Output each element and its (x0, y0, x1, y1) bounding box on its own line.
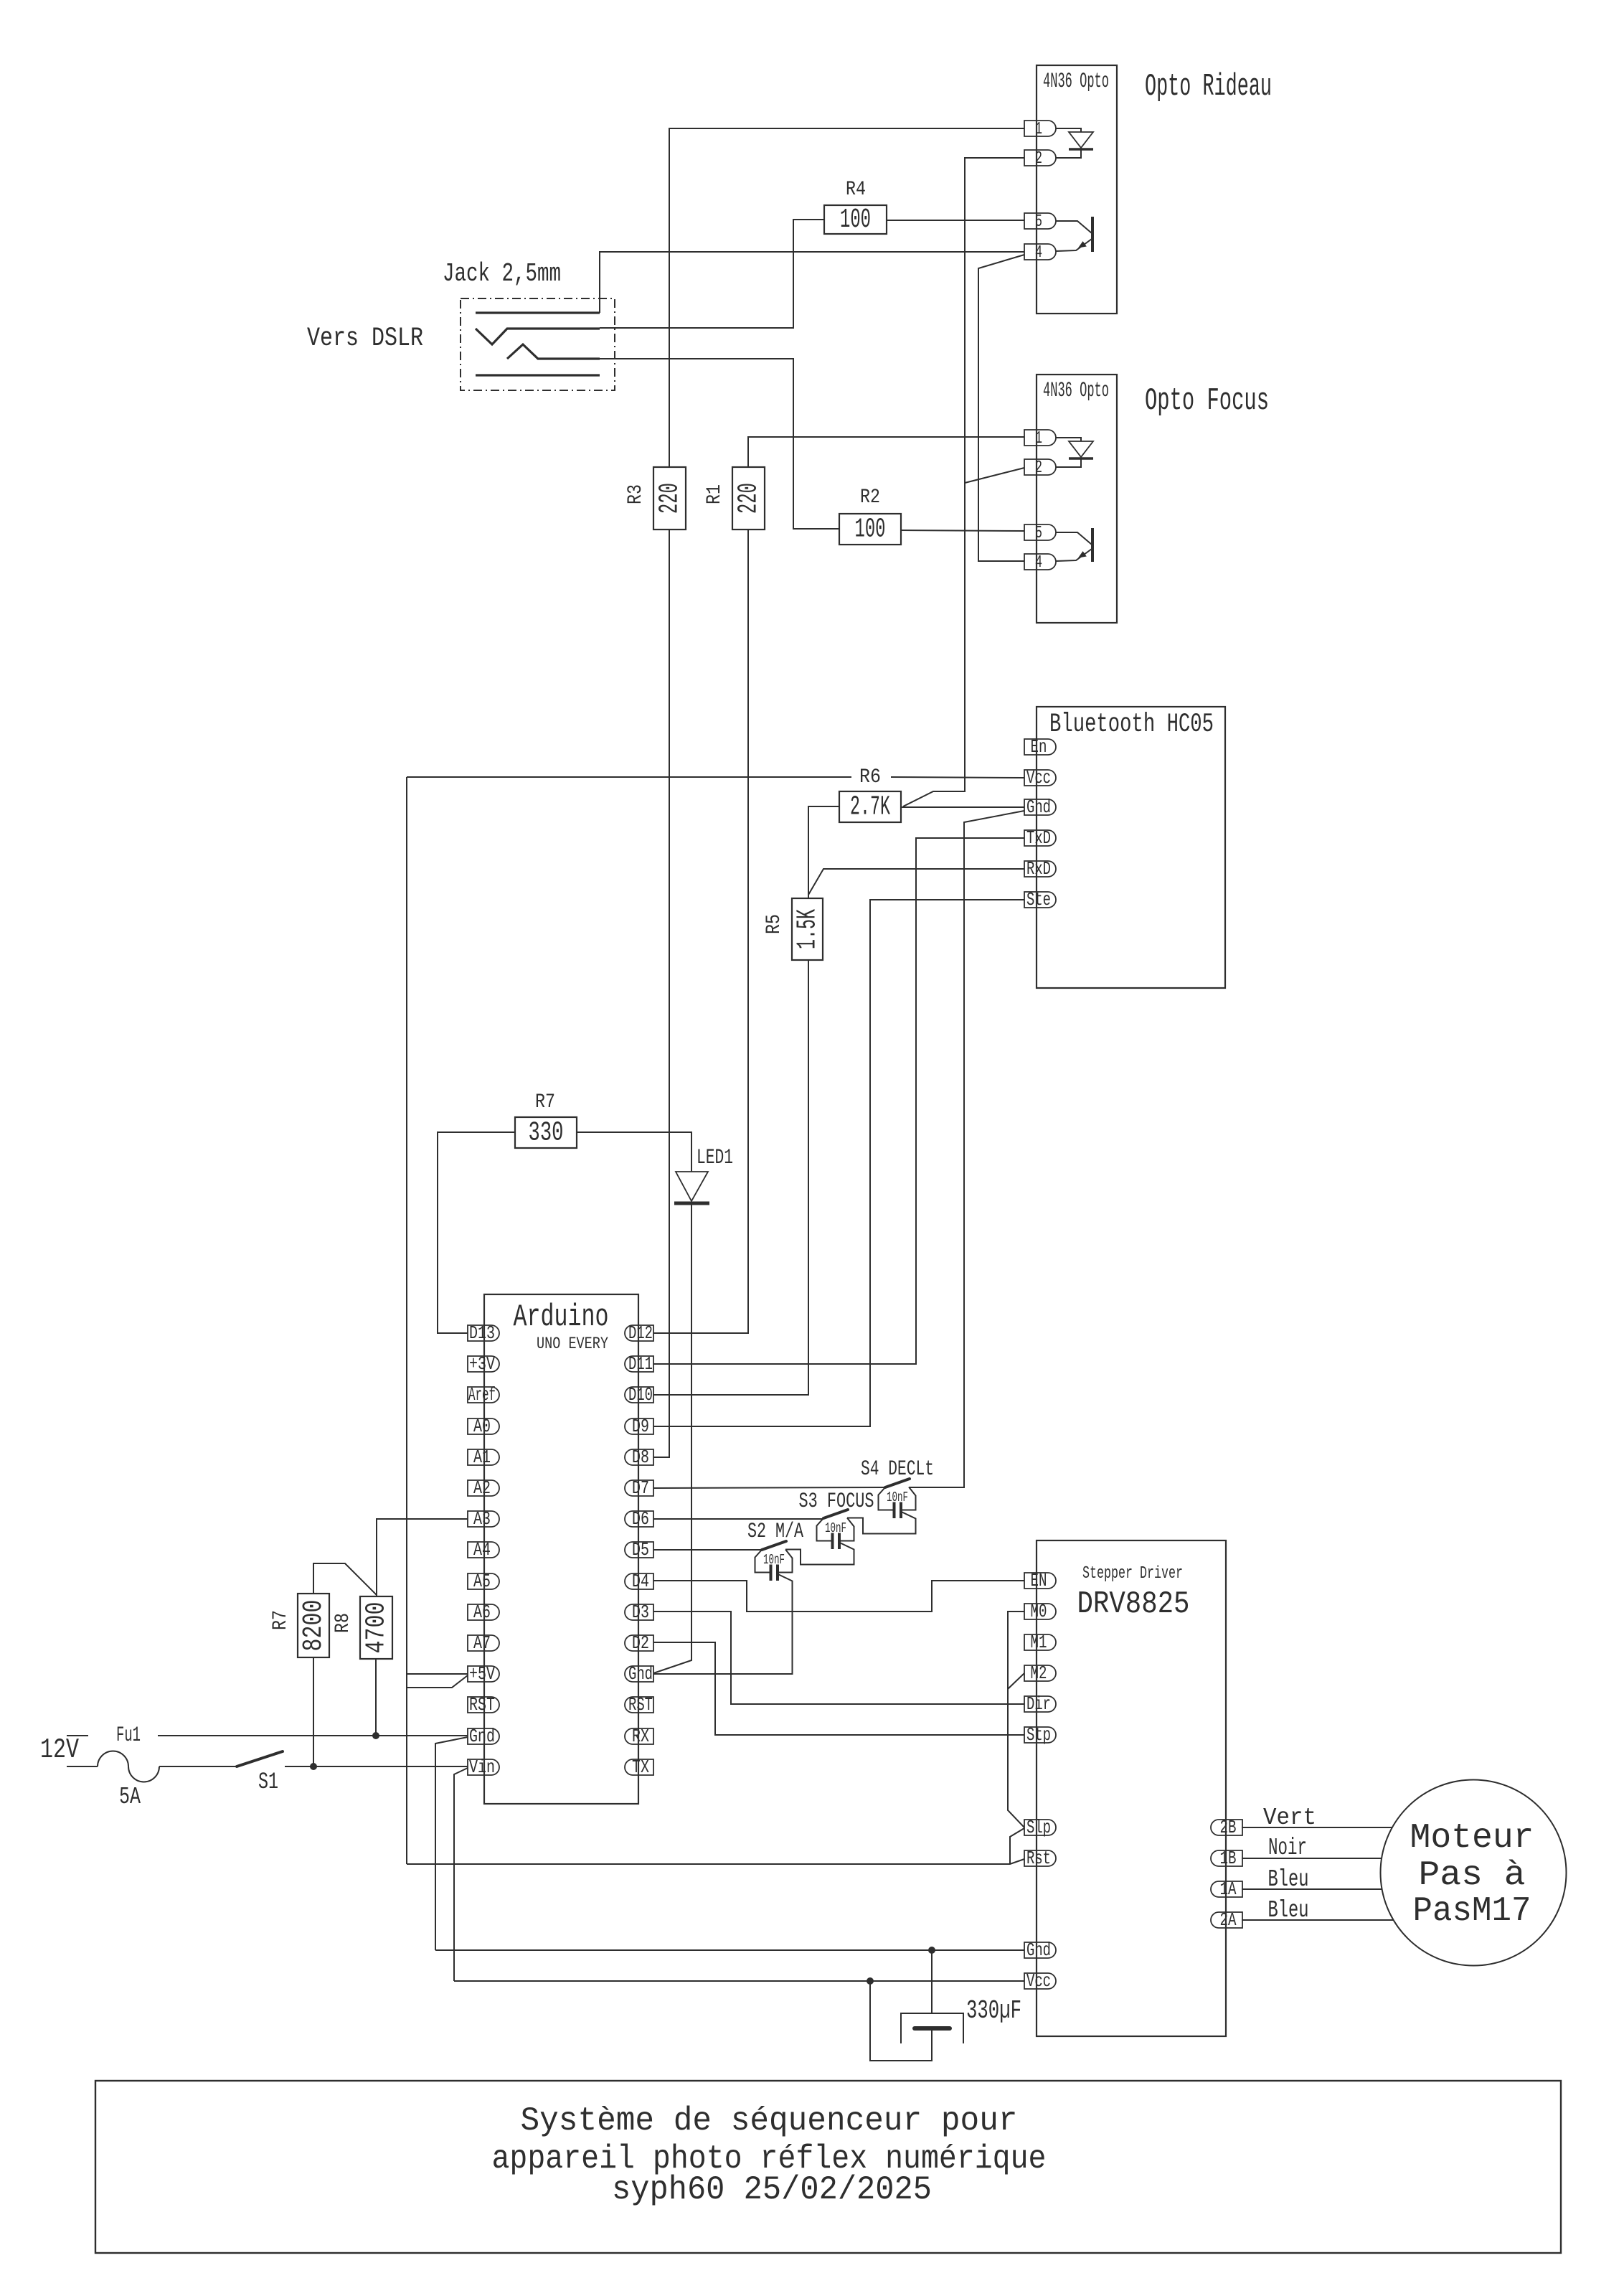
gnd wire with Fu1 label to arduino Gnd (67, 1735, 88, 1736)
svg-text:4N36 Opto: 4N36 Opto (1043, 70, 1109, 94)
wire S1 to arduino Vin (285, 1766, 468, 1767)
arduino pin D6 (right) (625, 1511, 653, 1527)
svg-text:220: 220 (734, 483, 765, 514)
svg-text:1B: 1B (1220, 1848, 1237, 1869)
svg-text:En: En (1031, 736, 1047, 758)
svg-text:D5: D5 (632, 1539, 649, 1561)
opto LED anode wire (1056, 128, 1081, 132)
wire R3 to arduino D8 (653, 530, 669, 1457)
svg-text:TxD: TxD (1026, 827, 1051, 849)
opto focus pin 1 (1024, 430, 1056, 446)
wire gnd to DRV Gnd (435, 1949, 1024, 1951)
wire DRV 2B to motor, Vert (1242, 1827, 1392, 1828)
module U4 Bluetooth HC05 box (1037, 707, 1225, 988)
capacitor 10nF of S4 (893, 1502, 896, 1519)
wire +5V vertical rail (406, 777, 407, 1864)
junction cap330 top (928, 1947, 935, 1954)
drv8825 pin Dir (1024, 1696, 1056, 1712)
svg-text:+3V: +3V (469, 1353, 495, 1375)
svg-text:1: 1 (1035, 429, 1042, 448)
svg-text:Pas à: Pas à (1419, 1856, 1526, 1895)
wire arduino D5 to S2 (653, 1549, 762, 1551)
resistor R7b 8200 (298, 1594, 329, 1657)
bluetooth pin TxD (1024, 830, 1056, 846)
svg-text:D3: D3 (632, 1601, 649, 1623)
svg-text:Dir: Dir (1026, 1693, 1051, 1715)
svg-text:Gnd: Gnd (1026, 1939, 1051, 1961)
wire R7 to LED1 (577, 1132, 691, 1172)
wire DRV M0-M2-Slp tie (1008, 1612, 1024, 1827)
svg-text:EN: EN (1031, 1570, 1047, 1591)
arduino pin +3V (left) (468, 1356, 499, 1372)
wire vin to DRV Vcc (454, 1980, 1024, 1982)
title block frame (95, 2081, 1561, 2253)
junction R7b-Vin (310, 1763, 317, 1770)
svg-text:A6: A6 (473, 1601, 491, 1623)
wire DRV 2A to motor, Bleu (1242, 1919, 1394, 1921)
resistor R6 2.7K (839, 791, 901, 822)
svg-text:4N36 Opto: 4N36 Opto (1043, 379, 1109, 403)
svg-text:2.7K: 2.7K (850, 792, 890, 823)
svg-text:4: 4 (1035, 243, 1042, 263)
switch S2 lever (762, 1541, 786, 1550)
arduino pin A2 (left) (468, 1480, 499, 1496)
svg-text:M0: M0 (1031, 1601, 1047, 1622)
svg-text:4: 4 (1035, 553, 1042, 573)
svg-text:Gnd: Gnd (469, 1726, 495, 1747)
arduino pin A0 (left) (468, 1418, 499, 1434)
svg-text:100: 100 (855, 514, 886, 545)
wire R3 to opto rideau pin 1 (669, 128, 1024, 467)
wire R8 bottom to gnd wire (375, 1659, 377, 1736)
svg-text:D7: D7 (632, 1477, 649, 1499)
svg-text:D9: D9 (632, 1416, 649, 1437)
svg-text:4700: 4700 (362, 1602, 392, 1654)
jack bottom contact (476, 374, 600, 376)
arduino pin Gnd (right) (625, 1666, 653, 1682)
svg-text:12V: 12V (40, 1734, 79, 1766)
arduino pin D9 (right) (625, 1418, 653, 1434)
opto focus pin 4 (1024, 554, 1056, 570)
arduino pin +5V (left) (468, 1666, 499, 1682)
svg-text:100: 100 (840, 204, 871, 235)
svg-text:Jack 2,5mm: Jack 2,5mm (443, 259, 561, 288)
svg-text:Vin: Vin (469, 1756, 495, 1778)
arduino pin RST (left) (468, 1697, 499, 1713)
svg-text:D11: D11 (628, 1353, 653, 1375)
svg-text:330µF: 330µF (966, 1996, 1021, 2026)
opto rideau pin 5 (1024, 213, 1056, 229)
svg-text:5A: 5A (119, 1784, 141, 1810)
svg-text:Noir: Noir (1268, 1835, 1307, 1861)
wire R2 to opto focus pin 5 (901, 530, 1024, 531)
wire jack sleeve to opto pins 4 (600, 252, 1024, 313)
svg-text:A4: A4 (473, 1539, 491, 1561)
svg-text:A0: A0 (473, 1416, 491, 1437)
capacitor 10nF of S3 (831, 1533, 834, 1550)
svg-text:Système de séquenceur pour: Système de séquenceur pour (521, 2102, 1018, 2140)
wire arduino D6 to S3 (653, 1518, 823, 1520)
svg-text:Stepper Driver: Stepper Driver (1082, 1564, 1183, 1584)
svg-text:Bluetooth HC05: Bluetooth HC05 (1049, 710, 1214, 740)
svg-text:R3: R3 (625, 484, 647, 504)
svg-text:Slp: Slp (1026, 1817, 1051, 1838)
wire arduino A3 to R8 (377, 1519, 468, 1596)
svg-text:220: 220 (655, 483, 686, 514)
svg-text:UNO EVERY: UNO EVERY (537, 1335, 608, 1353)
svg-text:10nF: 10nF (763, 1552, 785, 1568)
svg-text:A3: A3 (473, 1508, 491, 1530)
arduino pin D4 (right) (625, 1573, 653, 1589)
drv8825 pin Rst (1024, 1850, 1056, 1866)
junction cap330 bottom (867, 1977, 874, 1985)
drv8825 pin Slp (1024, 1820, 1056, 1835)
wire opto rideau pin 2 to cathode net (903, 158, 1024, 806)
wire bluetooth RxD to R5 (808, 869, 1024, 895)
wire LED1 cathode to arduino Gnd (653, 1205, 691, 1673)
svg-text:2A: 2A (1220, 1909, 1237, 1931)
resistor R2 100 (839, 514, 901, 545)
bluetooth pin RxD (1024, 861, 1056, 877)
svg-text:R7: R7 (270, 1610, 292, 1630)
bluetooth pin Gnd (1024, 799, 1056, 815)
wire bluetooth Gnd down to gnd net (964, 811, 1024, 1487)
svg-text:R2: R2 (860, 486, 880, 509)
opto LED diode (1069, 441, 1093, 457)
resistor R8 4700 (360, 1596, 392, 1659)
opto-coupler U2 4N36 Opto Rideau box (1037, 65, 1117, 314)
switch S2 cap outline (755, 1550, 770, 1573)
resistor R5 1.5K (792, 898, 823, 960)
arduino pin D8 (right) (625, 1449, 653, 1465)
wire arduino D4 to DRV EN (653, 1581, 1024, 1612)
svg-text:Ste: Ste (1026, 889, 1051, 911)
svg-text:Aref: Aref (468, 1384, 496, 1406)
arduino pin A4 (left) (468, 1542, 499, 1558)
wire +5V to bluetooth Vcc (407, 776, 851, 778)
svg-text:2: 2 (1035, 458, 1042, 478)
arduino pin A7 (left) (468, 1635, 499, 1651)
arduino pin D3 (right) (625, 1604, 653, 1620)
wire +5V rail to +5V pin (407, 1673, 468, 1675)
wire R4 to opto rideau pin 5 (887, 220, 1024, 221)
svg-text:10nF: 10nF (825, 1520, 846, 1536)
svg-text:Vert: Vert (1263, 1805, 1316, 1831)
svg-text:A7: A7 (473, 1632, 491, 1654)
svg-text:330: 330 (529, 1118, 564, 1149)
drv8825 pin EN (1024, 1573, 1056, 1589)
wire DRV 1B to motor, Noir (1242, 1858, 1382, 1859)
svg-text:1.5K: 1.5K (793, 909, 823, 949)
arduino pin D11 (right) (625, 1356, 653, 1372)
svg-text:8200: 8200 (298, 1600, 329, 1652)
arduino pin D12 (right) (625, 1325, 653, 1341)
svg-text:+5V: +5V (469, 1663, 495, 1685)
svg-text:D6: D6 (632, 1508, 649, 1530)
wire R1 to opto focus pin 1 (748, 437, 1024, 467)
opto LED cathode wire (1056, 149, 1081, 158)
svg-text:S3 FOCUS: S3 FOCUS (799, 1490, 874, 1514)
svg-text:D2: D2 (632, 1632, 649, 1654)
svg-text:D10: D10 (628, 1384, 653, 1406)
svg-text:RxD: RxD (1026, 858, 1051, 880)
svg-text:2B: 2B (1220, 1817, 1237, 1838)
svg-text:DRV8825: DRV8825 (1077, 1586, 1190, 1622)
opto LED anode wire (1056, 438, 1081, 441)
arduino pin Vin (left) (468, 1759, 499, 1775)
junction R8-gnd (372, 1732, 379, 1739)
svg-text:Vcc: Vcc (1026, 767, 1051, 789)
arduino pin Gnd (left) (468, 1728, 499, 1744)
switch S1 lever (237, 1751, 283, 1766)
arduino pin D10 (right) (625, 1387, 653, 1403)
svg-text:PasM17: PasM17 (1413, 1892, 1531, 1931)
wire DRV 1A to motor, Bleu (1242, 1888, 1382, 1890)
drv8825 pin M1 (1024, 1634, 1056, 1650)
svg-text:Bleu: Bleu (1268, 1866, 1309, 1893)
svg-text:A2: A2 (473, 1477, 491, 1499)
svg-text:D8: D8 (632, 1446, 649, 1468)
arduino pin D7 (right) (625, 1480, 653, 1496)
wire arduino D3 to DRV Dir (653, 1612, 1024, 1704)
opto rideau pin 4 (1024, 244, 1056, 260)
svg-text:5: 5 (1035, 524, 1042, 543)
capacitor C1 330uF (931, 1950, 933, 2013)
opto focus pin 5 (1024, 524, 1056, 540)
svg-text:RST: RST (469, 1694, 495, 1716)
svg-text:Arduino: Arduino (514, 1299, 609, 1335)
arduino pin A6 (left) (468, 1604, 499, 1620)
wire S3 right contact to chain (847, 1512, 916, 1534)
wire R7 to arduino D13 (438, 1132, 515, 1333)
svg-text:TX: TX (632, 1756, 649, 1778)
svg-text:R5: R5 (763, 914, 785, 934)
svg-text:S2 M/A: S2 M/A (747, 1520, 803, 1544)
wire +5V to DRV Slp and Rst (407, 1859, 1024, 1864)
switch S4 lever (885, 1479, 910, 1487)
resistor R3 220 (653, 467, 686, 530)
wire opto rideau pin4 tie to opto focus pin4 (978, 255, 1024, 561)
svg-text:2: 2 (1035, 149, 1042, 169)
svg-text:1A: 1A (1220, 1878, 1237, 1900)
wire arduino Gnd down to DRV Gnd (435, 1737, 468, 1950)
wire bluetooth Ste to arduino D9 (653, 900, 1024, 1426)
wire arduino D2 to DRV Stp (653, 1642, 1024, 1735)
svg-text:Vers DSLR: Vers DSLR (307, 324, 423, 354)
svg-text:A5: A5 (473, 1571, 491, 1592)
opto LED diode (1069, 132, 1093, 148)
drv8825 pin 1B (right) (1211, 1850, 1242, 1866)
svg-text:A1: A1 (473, 1446, 491, 1468)
diode LED1 (676, 1172, 708, 1201)
svg-text:syph60 25/02/2025: syph60 25/02/2025 (612, 2171, 932, 2208)
wire S2 cap to arduino Gnd (653, 1574, 793, 1674)
drv8825 pin 1A (right) (1211, 1881, 1242, 1897)
svg-text:D12: D12 (628, 1322, 653, 1344)
drv8825 pin Gnd (1024, 1942, 1056, 1958)
svg-text:Gnd: Gnd (628, 1663, 653, 1685)
svg-text:Fu1: Fu1 (116, 1723, 141, 1748)
svg-text:R4: R4 (846, 179, 866, 201)
svg-text:R7: R7 (535, 1091, 555, 1114)
wire R7b top to A3 node (313, 1563, 377, 1595)
arduino pin RX (right) (625, 1728, 653, 1744)
wire S4 right contact to gnd net (909, 1487, 965, 1488)
svg-text:1: 1 (1035, 120, 1042, 139)
bluetooth pin En (1024, 739, 1056, 755)
svg-text:Opto Focus: Opto Focus (1145, 383, 1269, 419)
switch S3 cap outline (817, 1518, 832, 1541)
bluetooth pin Vcc (1024, 770, 1056, 786)
arduino pin A3 (left) (468, 1511, 499, 1527)
svg-text:D4: D4 (632, 1571, 649, 1592)
connector J1 jack 2.5mm outline (461, 298, 615, 390)
arduino pin D5 (right) (625, 1542, 653, 1558)
drv8825 pin Stp (1024, 1727, 1056, 1743)
svg-text:Bleu: Bleu (1268, 1897, 1309, 1924)
svg-text:5: 5 (1035, 212, 1042, 232)
svg-text:R1: R1 (704, 484, 726, 504)
opto focus pin 2 (1024, 459, 1056, 475)
wire R6 left to R5 top (808, 806, 839, 898)
wire jack tip to R2 (600, 359, 839, 529)
arduino pin RST (right) (625, 1697, 653, 1713)
resistor R4 100 (824, 205, 887, 234)
svg-text:Stp: Stp (1026, 1724, 1051, 1746)
wire arduino Vin down to DRV Vcc (454, 1768, 468, 1981)
opto phototransistor (1091, 217, 1094, 252)
opto-coupler U3 4N36 Opto Focus box (1037, 375, 1117, 623)
svg-text:R8: R8 (332, 1613, 354, 1633)
opto LED cathode wire (1056, 458, 1081, 467)
arduino pin Aref (left) (468, 1387, 499, 1403)
arduino pin A1 (left) (468, 1449, 499, 1465)
opto rideau pin 1 (1024, 121, 1056, 136)
drv8825 pin M0 (1024, 1604, 1056, 1619)
wire R5 to arduino D10 (653, 960, 808, 1395)
switch S3 lever (823, 1510, 848, 1518)
svg-text:D13: D13 (469, 1322, 495, 1344)
capacitor 10nF of S2 (770, 1565, 773, 1581)
arduino pin D2 (right) (625, 1635, 653, 1651)
opto phototransistor (1091, 528, 1094, 562)
svg-text:Gnd: Gnd (1026, 796, 1051, 818)
resistor R1 220 (732, 467, 765, 530)
wire R4 to jack ring (600, 220, 824, 328)
svg-text:Opto Rideau: Opto Rideau (1145, 69, 1272, 105)
svg-text:S1: S1 (258, 1769, 278, 1795)
drv8825 pin 2A (right) (1211, 1912, 1242, 1928)
drv8825 pin Vcc (1024, 1973, 1056, 1989)
wire R6 to bluetooth Gnd (901, 806, 1024, 808)
wire R1 to arduino D12 (653, 530, 748, 1333)
svg-text:10nF: 10nF (887, 1490, 908, 1505)
wire cathode diag into opto focus pin 2 (965, 468, 1024, 483)
drv8825 pin M2 (1024, 1665, 1056, 1681)
motor M1 stepper circle (1381, 1780, 1567, 1966)
wire bluetooth TxD to arduino D11 (653, 838, 1024, 1364)
wire R7b bottom to 12V switched node (313, 1657, 314, 1766)
switch S4 cap outline (879, 1487, 894, 1510)
wire arduino D7 to S4 (653, 1487, 885, 1488)
drv8825 pin 2B (right) (1211, 1820, 1242, 1835)
svg-text:RST: RST (628, 1694, 653, 1716)
fuse Fu1 on 12V line (67, 1766, 98, 1767)
arduino pin A5 (left) (468, 1573, 499, 1589)
svg-text:M2: M2 (1031, 1662, 1047, 1684)
svg-text:Vcc: Vcc (1026, 1970, 1051, 1992)
jack tip contact (507, 344, 600, 359)
wire S2 right contact to chain (785, 1543, 854, 1565)
svg-text:S4 DECLt: S4 DECLt (861, 1457, 934, 1482)
resistor R7 330 (515, 1117, 577, 1148)
svg-text:LED1: LED1 (697, 1146, 733, 1170)
svg-text:RX: RX (632, 1726, 649, 1747)
svg-text:Moteur: Moteur (1410, 1819, 1534, 1858)
arduino pin TX (right) (625, 1759, 653, 1775)
jack ring contact (476, 329, 600, 344)
svg-text:M1: M1 (1031, 1632, 1047, 1653)
svg-text:Rst: Rst (1026, 1848, 1051, 1869)
svg-text:R6: R6 (859, 766, 881, 789)
bluetooth pin Ste (1024, 892, 1056, 908)
jack sleeve contact (476, 311, 600, 314)
arduino pin D13 (left) (468, 1325, 499, 1341)
module U1 Arduino UNO EVERY box (484, 1294, 638, 1804)
module U5 DRV8825 stepper driver box (1037, 1540, 1226, 2036)
opto rideau pin 2 (1024, 150, 1056, 166)
